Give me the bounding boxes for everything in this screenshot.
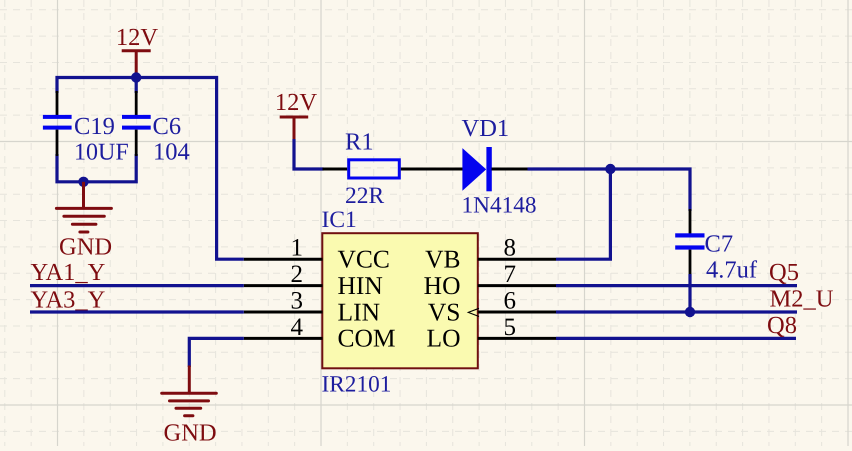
svg-text:2: 2 bbox=[291, 261, 304, 288]
svg-text:8: 8 bbox=[504, 235, 517, 262]
power symbol 12V (top-left) bbox=[116, 24, 159, 75]
svg-text:GND: GND bbox=[59, 234, 112, 261]
junction dot at 12V rail bbox=[131, 72, 141, 82]
pin 4 COM bbox=[244, 314, 396, 353]
wire: 12V to R1 bbox=[294, 139, 324, 169]
svg-text:VS: VS bbox=[428, 297, 461, 326]
resistor R1 22R bbox=[323, 129, 464, 210]
svg-text:LIN: LIN bbox=[338, 297, 380, 326]
capacitor C7 4.7uf bbox=[675, 209, 758, 284]
svg-text:6: 6 bbox=[504, 287, 517, 314]
wire: VB node right and down to C7 bbox=[610, 169, 690, 211]
wire: pin 7 HO to Q5 bbox=[556, 284, 797, 287]
svg-text:VD1: VD1 bbox=[462, 115, 510, 142]
svg-text:C7: C7 bbox=[705, 231, 734, 258]
svg-text:VCC: VCC bbox=[338, 245, 390, 274]
svg-text:YA1_Y: YA1_Y bbox=[31, 259, 106, 286]
capacitor C19 bbox=[43, 91, 129, 166]
wire: pin 5 LO to Q8 bbox=[556, 337, 796, 340]
svg-text:Q5: Q5 bbox=[769, 259, 799, 286]
diode VD1 1N4148 bbox=[462, 115, 537, 219]
wire: bottom of C19/C6 to ground bbox=[57, 154, 136, 182]
power symbol 12V (above R1) bbox=[275, 89, 318, 141]
wire: YA3_Y to pin 3 bbox=[30, 310, 244, 313]
svg-text:LO: LO bbox=[427, 324, 461, 353]
ground GND (bottom, COM) bbox=[162, 366, 217, 447]
svg-text:5: 5 bbox=[504, 314, 517, 341]
pin 6 VS with edge marker bbox=[428, 287, 556, 326]
svg-text:104: 104 bbox=[153, 139, 190, 166]
svg-text:C19: C19 bbox=[74, 113, 115, 140]
svg-text:GND: GND bbox=[164, 420, 217, 447]
svg-text:HIN: HIN bbox=[338, 271, 383, 300]
wire: VB node down to IC pin 8 bbox=[556, 169, 610, 259]
pin 7 HO bbox=[424, 261, 556, 300]
net label YA1_Y bbox=[31, 259, 106, 286]
svg-text:COM: COM bbox=[338, 324, 396, 353]
VS pin edge marker bbox=[468, 308, 479, 316]
svg-text:R1: R1 bbox=[345, 129, 374, 156]
svg-text:IR2101: IR2101 bbox=[322, 372, 392, 398]
svg-text:22R: 22R bbox=[345, 183, 385, 209]
pin 5 LO bbox=[427, 314, 557, 353]
C19 top lead bbox=[56, 91, 59, 115]
junction dot on VS net bbox=[685, 307, 695, 317]
svg-text:VB: VB bbox=[425, 245, 460, 274]
svg-text:1N4148: 1N4148 bbox=[462, 193, 537, 219]
svg-text:4: 4 bbox=[291, 314, 304, 341]
wire: YA1_Y to pin 2 bbox=[30, 284, 244, 287]
wire: pin 6 VS to M2_U bbox=[556, 310, 797, 313]
net label Q5 bbox=[769, 259, 799, 286]
svg-text:12V: 12V bbox=[275, 89, 318, 116]
svg-text:C6: C6 bbox=[153, 113, 182, 140]
wire: C7 bottom to VS net bbox=[688, 274, 691, 312]
svg-text:7: 7 bbox=[504, 261, 517, 288]
op-amp/driver IC U1 IR2101 body bbox=[322, 207, 478, 398]
junction dot at ground node bbox=[78, 177, 88, 187]
C6 top lead bbox=[135, 91, 138, 115]
capacitor C6 bbox=[122, 91, 190, 166]
pin 2 HIN bbox=[244, 261, 383, 300]
pin 3 LIN bbox=[244, 287, 380, 326]
svg-text:M2_U: M2_U bbox=[770, 286, 834, 313]
pin 1 VCC bbox=[244, 235, 390, 274]
pin 8 VB bbox=[425, 235, 556, 274]
wire: VD1 cathode to VB node bbox=[528, 167, 611, 170]
svg-text:10UF: 10UF bbox=[74, 140, 129, 166]
wire: 12V rail to C19/C6 and down to IC pin 1 bbox=[57, 78, 244, 260]
svg-text:HO: HO bbox=[424, 271, 461, 300]
wire: pin 4 COM to ground bbox=[189, 338, 244, 367]
net label YA3_Y bbox=[31, 286, 106, 313]
net label Q8 bbox=[767, 312, 797, 339]
svg-text:12V: 12V bbox=[116, 24, 159, 51]
net label M2_U bbox=[770, 286, 834, 313]
junction dot VB node bbox=[605, 164, 615, 174]
svg-text:Q8: Q8 bbox=[767, 312, 797, 339]
svg-text:4.7uf: 4.7uf bbox=[706, 257, 758, 284]
svg-text:IC1: IC1 bbox=[322, 207, 357, 233]
svg-text:1: 1 bbox=[291, 235, 304, 262]
svg-text:YA3_Y: YA3_Y bbox=[31, 286, 106, 313]
svg-text:3: 3 bbox=[291, 287, 304, 314]
ground GND (left, under C19/C6) bbox=[56, 182, 112, 261]
wire: stub from 12V junction down to C6 bbox=[135, 78, 138, 94]
